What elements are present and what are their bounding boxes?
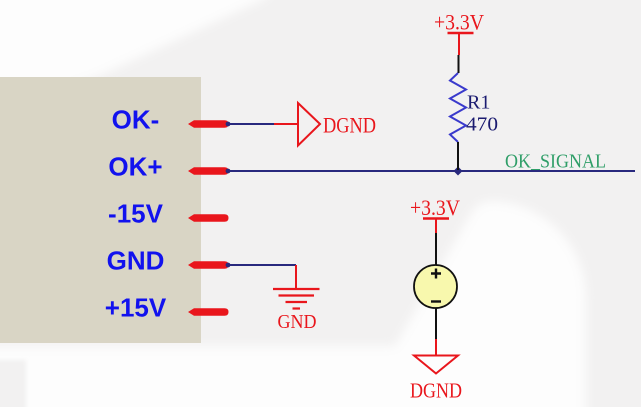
wire GND down (red)	[295, 265, 297, 288]
svg-text:OK_SIGNAL: OK_SIGNAL	[505, 151, 606, 173]
pin stub OK-	[188, 120, 229, 127]
wire OK+ net (horizontal)	[227, 170, 635, 172]
background watermark: gray strip bottom-left corner	[0, 360, 26, 407]
voltage source circle	[414, 265, 457, 308]
svg-text:R1: R1	[467, 92, 490, 114]
svg-text:470: 470	[466, 114, 498, 136]
svg-text:GND: GND	[278, 311, 317, 333]
power port +3.3V (top) bar	[448, 32, 474, 34]
GND earth symbol bar 4	[293, 307, 301, 309]
junction dot OK+ pin	[226, 169, 231, 174]
pin stub -15V	[188, 214, 229, 221]
svg-text:DGND: DGND	[410, 379, 462, 403]
svg-text:+15V: +15V	[105, 293, 167, 323]
wire from +3.3V to R1 (black)	[458, 55, 460, 73]
power port +3.3V (bottom) stem	[435, 219, 437, 234]
svg-text:-15V: -15V	[108, 199, 164, 229]
pin stub +15V	[188, 308, 229, 315]
power port +3.3V (bottom) bar	[423, 217, 449, 219]
junction dot GND pin	[226, 263, 231, 268]
wire source to DGND (red)	[435, 339, 437, 355]
junction dot OK- pin	[226, 122, 231, 127]
GND earth symbol bar 2	[279, 294, 315, 296]
wire from R1 to OK+ net (black)	[457, 142, 459, 170]
DGND power symbol (right-pointing open triangle)	[298, 103, 320, 146]
pin stub GND	[188, 261, 229, 268]
background watermark: white triangle top-left	[0, 0, 298, 122]
power port +3.3V (top) stem	[458, 33, 460, 55]
junction dot	[454, 167, 463, 176]
resistor R1 zigzag	[450, 73, 466, 142]
voltage source minus sign	[431, 300, 441, 302]
svg-text:GND: GND	[107, 246, 165, 276]
DGND power symbol (down-pointing open triangle)	[414, 356, 458, 374]
GND earth symbol bar 3	[286, 301, 308, 303]
svg-text:+3.3V: +3.3V	[434, 10, 484, 35]
wire source to DGND (black)	[435, 308, 437, 339]
GND earth symbol bar 1	[273, 288, 320, 290]
wire OK- to DGND arrow (blue part)	[227, 123, 274, 125]
svg-text:DGND: DGND	[323, 113, 376, 138]
wire OK- to DGND arrow (red part)	[274, 123, 297, 125]
IC block (connector body)	[0, 77, 201, 343]
svg-text:+3.3V: +3.3V	[410, 195, 460, 220]
voltage source plus sign	[431, 269, 441, 279]
wire +3.3V to source V1 (black)	[435, 233, 437, 265]
pin stub OK+	[188, 167, 229, 174]
svg-text:OK-: OK-	[112, 105, 160, 135]
svg-text:OK+: OK+	[108, 152, 162, 182]
background watermark: white rounded region bottom-right	[0, 201, 586, 407]
wire GND pin (blue part)	[227, 264, 296, 266]
